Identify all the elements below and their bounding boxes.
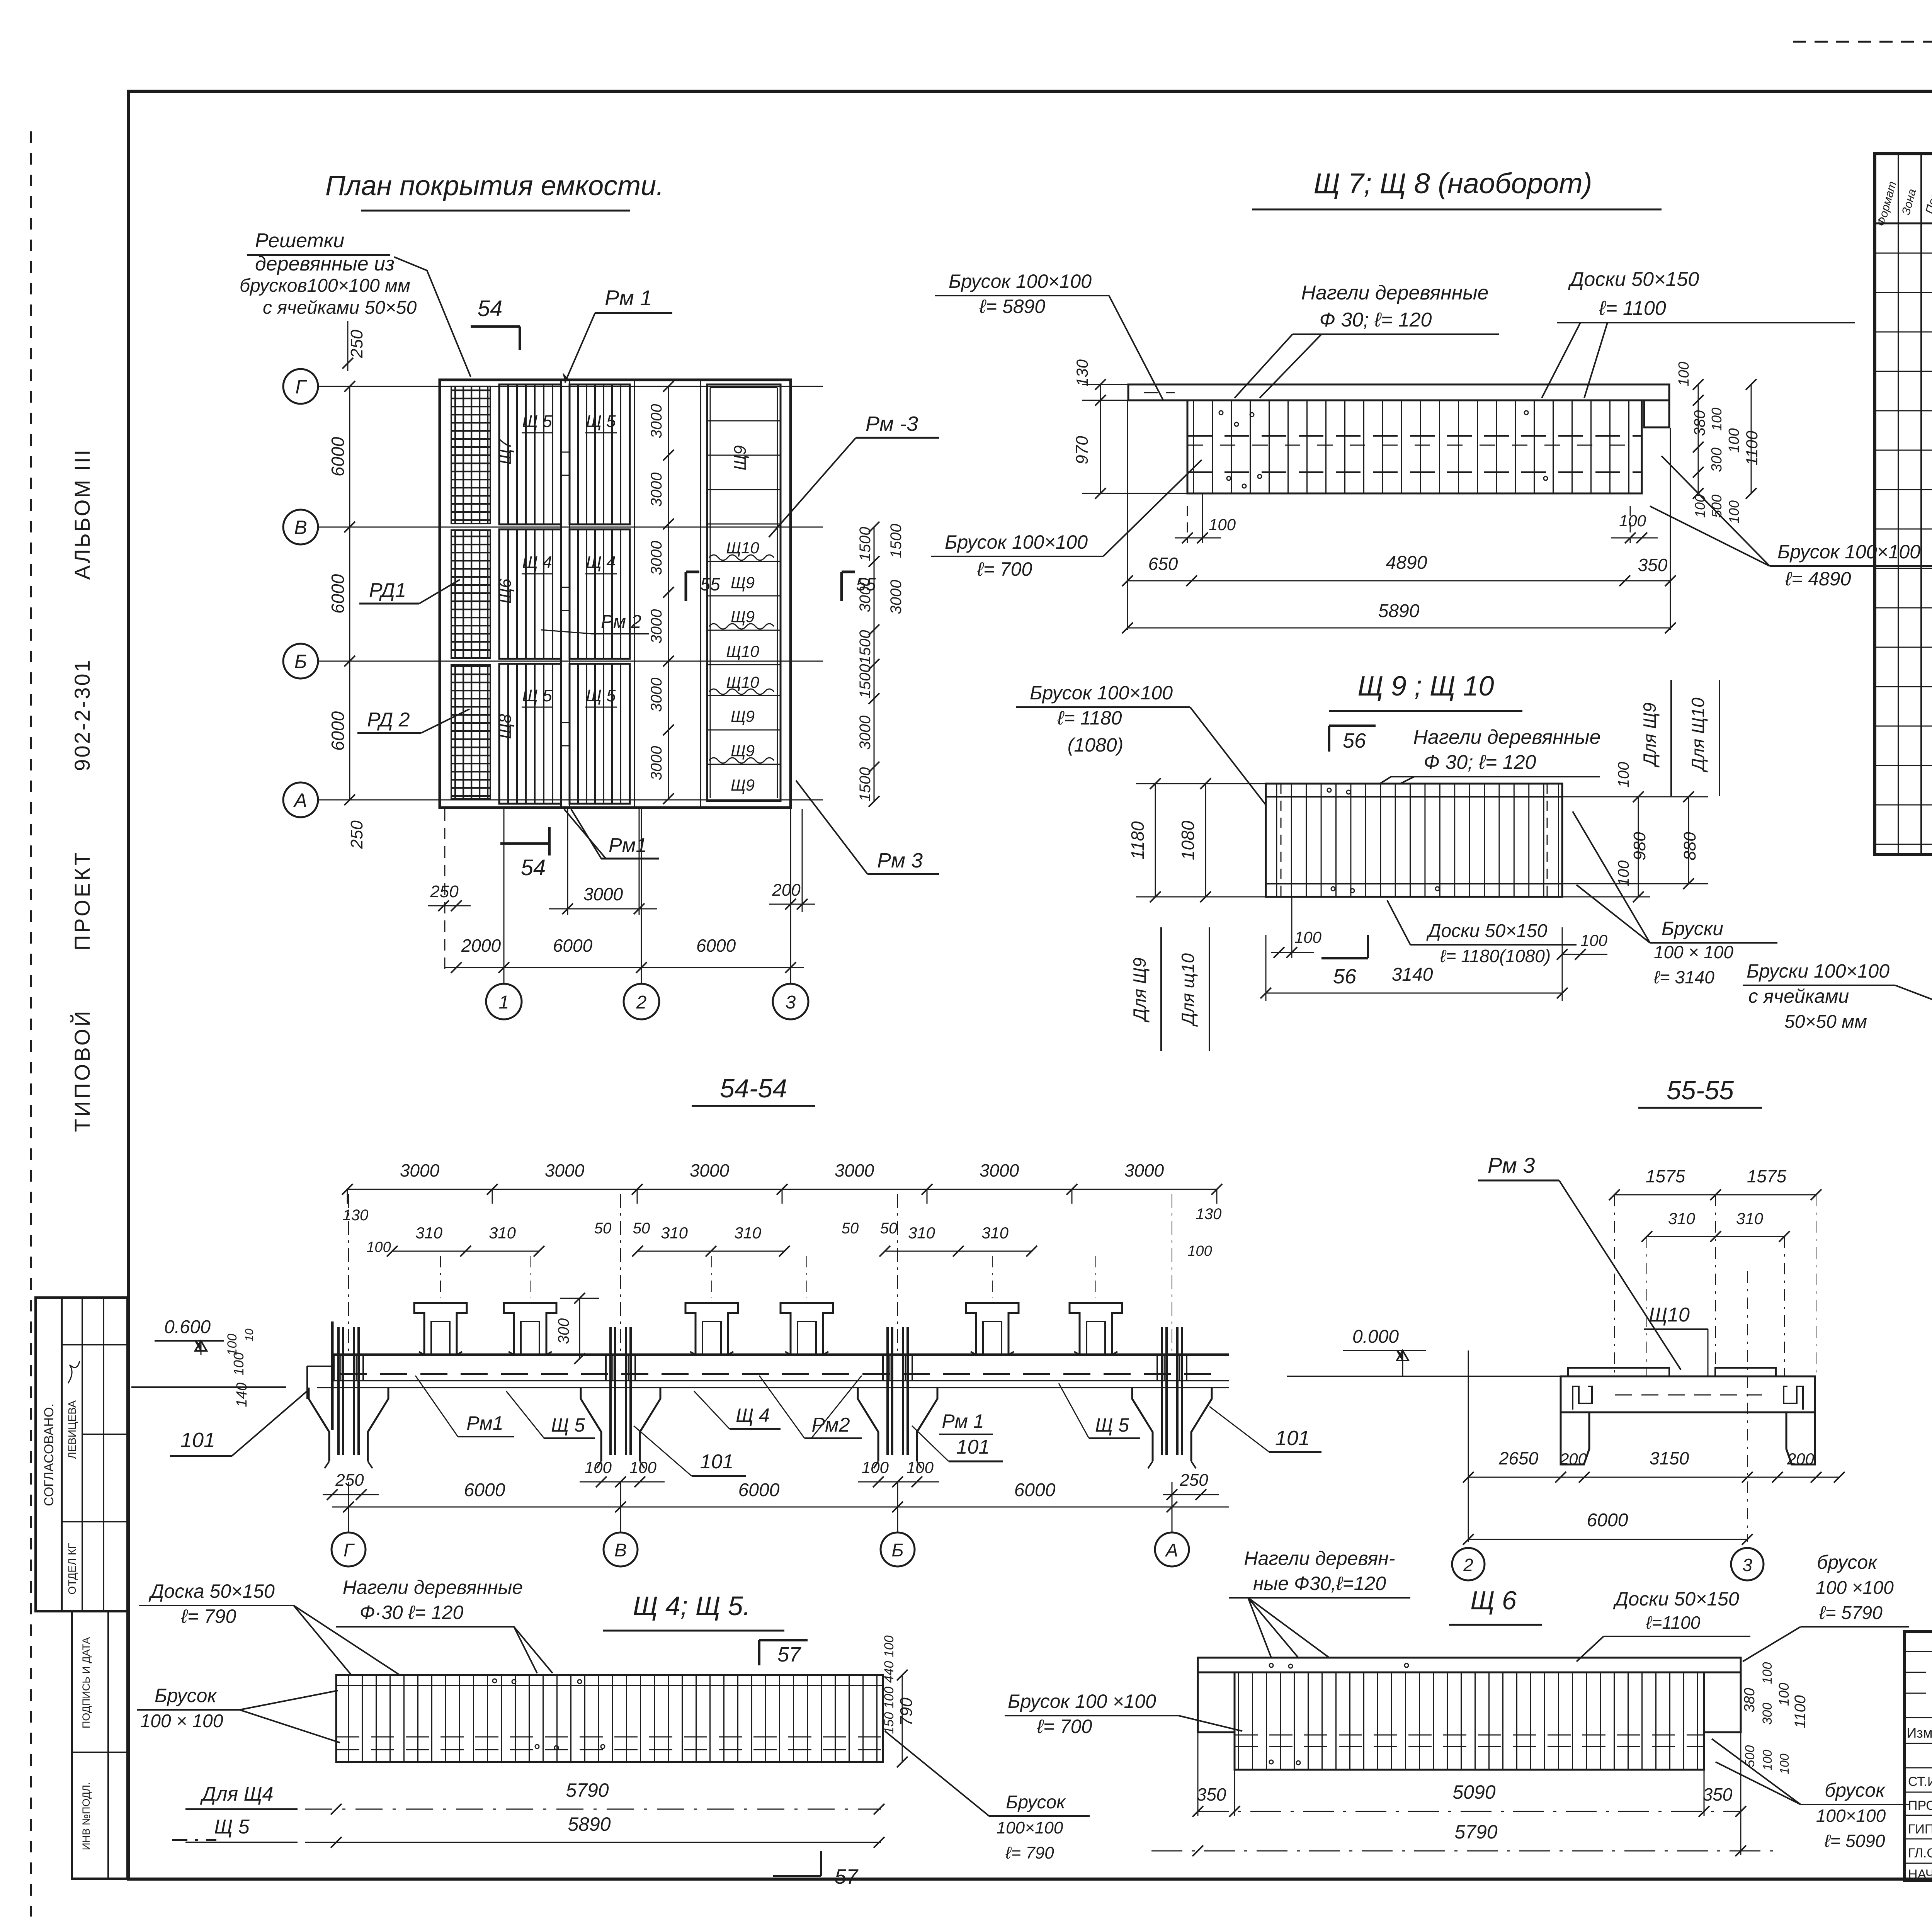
svg-text:55-55: 55-55 (1667, 1076, 1734, 1105)
svg-text:100: 100 (862, 1458, 889, 1476)
svg-text:Доски 50×150: Доски 50×150 (1613, 1588, 1739, 1610)
svg-text:200: 200 (772, 881, 801, 900)
svg-text:Щ10: Щ10 (726, 642, 759, 660)
svg-text:150 100 440 100: 150 100 440 100 (882, 1635, 896, 1734)
svg-text:100: 100 (1760, 1750, 1774, 1770)
axis line В (318, 527, 823, 528)
svg-text:100: 100 (1187, 1243, 1212, 1259)
svg-text:ℓ= 5890: ℓ= 5890 (979, 296, 1046, 317)
left end details 54-54 (331, 1321, 334, 1430)
svg-text:380: 380 (1742, 1688, 1758, 1712)
svg-text:250: 250 (347, 820, 366, 849)
svg-text:Щ 5: Щ 5 (214, 1816, 250, 1838)
axis lines 55-55 (1468, 1350, 1469, 1542)
svg-text:880: 880 (1680, 832, 1699, 861)
svg-text:Брусок 100 ×100: Брусок 100 ×100 (1008, 1690, 1156, 1712)
embedded vertical dowel bars at supports (337, 1327, 340, 1455)
svg-text:Щ 4; Щ 5.: Щ 4; Щ 5. (633, 1591, 750, 1621)
svg-text:СТ.ИНЖЕН: СТ.ИНЖЕН (1908, 1774, 1932, 1789)
svg-text:130: 130 (1073, 359, 1091, 386)
svg-text:Щ 5: Щ 5 (586, 412, 616, 431)
channel center dash verticals (440, 1256, 441, 1298)
plan right cell column Щ9/Щ10 (707, 384, 781, 801)
svg-text:РД1: РД1 (369, 579, 406, 602)
supports at axes 54-54 (309, 1388, 388, 1461)
svg-text:ЛЕВИЦЕВА: ЛЕВИЦЕВА (66, 1400, 78, 1459)
svg-text:Бруски: Бруски (1662, 918, 1723, 939)
svg-text:Рм2: Рм2 (811, 1414, 850, 1436)
svg-text:50: 50 (594, 1220, 612, 1237)
svg-text:Нагели деревянные: Нагели деревянные (1301, 282, 1488, 304)
svg-text:1: 1 (499, 992, 509, 1013)
svg-text:Ф·30 ℓ= 120: Ф·30 ℓ= 120 (360, 1602, 464, 1623)
bottom dim 650 4890 350 (1128, 580, 1670, 582)
svg-text:ТИПОВОЙ: ТИПОВОЙ (70, 1009, 94, 1132)
svg-text:310: 310 (1736, 1209, 1764, 1228)
svg-text:3150: 3150 (1650, 1448, 1689, 1468)
svg-text:с ячейками: с ячейками (1748, 985, 1849, 1007)
header row Изм Лист N докум Подпись Дата (1905, 1743, 1932, 1744)
svg-text:Щ9: Щ9 (731, 776, 755, 794)
svg-text:101: 101 (956, 1436, 990, 1458)
svg-text:Ф 30; ℓ= 120: Ф 30; ℓ= 120 (1424, 751, 1536, 774)
svg-text:брусков100×100 мм: брусков100×100 мм (240, 276, 410, 296)
svg-text:Щ7: Щ7 (496, 439, 515, 465)
svg-text:310: 310 (734, 1224, 762, 1242)
svg-text:54: 54 (478, 296, 503, 321)
svg-text:200: 200 (1560, 1450, 1587, 1468)
svg-text:ГЛ.СПЕЦ.: ГЛ.СПЕЦ. (1908, 1846, 1932, 1861)
svg-text:56: 56 (1343, 729, 1366, 752)
deck slab lines 54-54 (332, 1354, 1229, 1356)
svg-text:1080: 1080 (1178, 820, 1198, 860)
section marks 55 (685, 572, 687, 601)
svg-text:2: 2 (636, 992, 647, 1013)
deck 55-55 (1561, 1376, 1815, 1412)
left dim 130/970 (1100, 384, 1101, 493)
title block outer box (1905, 1632, 1932, 1880)
svg-text:3000: 3000 (1124, 1160, 1164, 1180)
dim 5890 (305, 1842, 881, 1843)
svg-text:300: 300 (555, 1318, 572, 1344)
svg-text:Щ6: Щ6 (496, 578, 515, 604)
svg-text:Доска 50×150: Доска 50×150 (148, 1580, 275, 1602)
svg-text:100: 100 (1777, 1753, 1791, 1774)
svg-text:Для Щ9: Для Щ9 (1129, 957, 1150, 1023)
plan embedded strip Рм1 (center) (561, 380, 570, 808)
panel Щ6 left upper block (1198, 1672, 1235, 1732)
svg-text:250: 250 (1179, 1471, 1208, 1490)
svg-text:Щ10: Щ10 (726, 539, 759, 557)
svg-text:АЛЬБОМ III: АЛЬБОМ III (70, 448, 94, 580)
svg-text:ГИП: ГИП (1908, 1822, 1932, 1837)
svg-text:Щ9: Щ9 (731, 607, 755, 626)
svg-text:54-54: 54-54 (720, 1074, 787, 1103)
svg-text:101: 101 (700, 1451, 734, 1473)
svg-text:2: 2 (1463, 1555, 1473, 1575)
axis line Г (318, 386, 823, 387)
svg-text:Щ8: Щ8 (496, 714, 515, 739)
svg-text:6000: 6000 (553, 935, 593, 956)
axis circles 54-54 (332, 1532, 366, 1566)
svg-text:3000: 3000 (648, 541, 665, 575)
sheet left crease dashed line (30, 131, 32, 1917)
svg-text:ℓ= 3140: ℓ= 3140 (1653, 967, 1714, 987)
left margin stamp box ПОДПИСЬ И ДАТА / ИНВ №ПОДЛ (72, 1611, 128, 1879)
svg-text:Щ10: Щ10 (726, 673, 759, 691)
svg-text:А: А (293, 789, 307, 811)
svg-text:Рм1: Рм1 (466, 1412, 503, 1434)
svg-text:Брусок: Брусок (1006, 1792, 1066, 1813)
panel Щ6 right end block (1704, 1672, 1741, 1732)
axis circle В (283, 510, 318, 544)
right dims 100 380 300 100 / 1100 (1698, 384, 1699, 493)
axis line Б (318, 661, 823, 662)
svg-text:6000: 6000 (1587, 1510, 1628, 1531)
svg-text:Щ 7; Щ 8 (наоборот): Щ 7; Щ 8 (наоборот) (1314, 167, 1592, 199)
svg-text:100: 100 (629, 1458, 657, 1476)
svg-text:ИНВ №ПОДЛ.: ИНВ №ПОДЛ. (80, 1782, 92, 1850)
svg-text:310: 310 (908, 1224, 935, 1242)
svg-text:500: 500 (1743, 1745, 1757, 1767)
svg-text:6000: 6000 (1014, 1480, 1056, 1500)
svg-text:В: В (614, 1540, 627, 1561)
left margin stamp box СОГЛАСОВАНО (36, 1298, 128, 1611)
dim 300 channel height (579, 1298, 580, 1359)
svg-text:101: 101 (1275, 1427, 1310, 1450)
dims 2650 200 3150 200 (1468, 1477, 1839, 1478)
svg-text:ℓ= 1100: ℓ= 1100 (1599, 297, 1666, 320)
channel profiles on deck (414, 1303, 467, 1355)
svg-text:ℓ= 700: ℓ= 700 (1037, 1716, 1092, 1737)
plan plank panel group Щ7/Щ6/Щ8 and Щ5/Щ4 (499, 384, 561, 524)
dim row 310/50 labels (392, 1251, 539, 1252)
svg-text:650: 650 (1148, 554, 1178, 574)
svg-text:Брусок: Брусок (155, 1685, 217, 1706)
svg-text:50: 50 (842, 1220, 859, 1237)
svg-text:ℓ= 4890: ℓ= 4890 (1785, 568, 1851, 590)
svg-text:310: 310 (981, 1224, 1009, 1242)
svg-text:6000: 6000 (328, 437, 348, 476)
svg-text:ПРОЕКТ: ПРОЕКТ (70, 850, 94, 951)
panel end battens dashed (1281, 784, 1282, 897)
svg-text:350: 350 (1197, 1784, 1226, 1804)
svg-text:100 × 100: 100 × 100 (1654, 942, 1733, 962)
left dims 1180 1080 (1155, 784, 1156, 897)
svg-text:100: 100 (1760, 1662, 1775, 1684)
wavy joint marks Рм3 in right column (709, 555, 774, 560)
svg-text:ℓ= 700: ℓ= 700 (977, 558, 1032, 580)
svg-text:100: 100 (1726, 428, 1742, 452)
svg-text:1500: 1500 (857, 527, 874, 561)
svg-text:1500: 1500 (857, 630, 874, 665)
dims 1575 1575 (1614, 1194, 1816, 1196)
svg-text:100: 100 (366, 1239, 391, 1255)
dim 6000 55-55 (1468, 1539, 1747, 1540)
svg-text:РД 2: РД 2 (367, 709, 410, 731)
nageli dots Щ6 (1269, 1663, 1273, 1667)
svg-text:ℓ= 5090: ℓ= 5090 (1824, 1831, 1885, 1851)
title block thin change rows (1905, 1651, 1932, 1652)
svg-text:3000: 3000 (648, 609, 665, 644)
svg-text:ℓ= 790: ℓ= 790 (1005, 1844, 1054, 1862)
svg-text:Щ 5: Щ 5 (551, 1414, 585, 1436)
svg-text:Рм 2: Рм 2 (601, 612, 641, 632)
svg-text:100×100: 100×100 (1816, 1806, 1886, 1826)
panel rails Щ6 (1235, 1735, 1704, 1736)
svg-text:310: 310 (661, 1224, 688, 1242)
svg-text:Г: Г (344, 1540, 355, 1561)
bottom dim 5890 (1128, 628, 1670, 629)
small dim 100 below left end (1187, 506, 1188, 543)
bottom small dims 100 (1291, 897, 1293, 958)
svg-text:Бруски 100×100: Бруски 100×100 (1747, 960, 1889, 982)
svg-text:310: 310 (1668, 1209, 1696, 1228)
svg-text:100: 100 (225, 1334, 240, 1356)
svg-text:Доски 50×150: Доски 50×150 (1568, 268, 1699, 291)
svg-text:350: 350 (1703, 1784, 1733, 1804)
top dim row 3000 x6 (347, 1189, 1217, 1190)
svg-text:Щ 5: Щ 5 (586, 686, 616, 705)
svg-text:350: 350 (1638, 555, 1668, 575)
nageli dots Щ9 (1327, 788, 1331, 792)
svg-text:100: 100 (1615, 861, 1632, 886)
svg-text:250: 250 (335, 1471, 364, 1490)
svg-text:Доски 50×150: Доски 50×150 (1426, 921, 1548, 941)
svg-text:План покрытия емкости.: План покрытия емкости. (325, 170, 664, 201)
svg-text:100: 100 (1580, 931, 1608, 949)
svg-text:Рм 3: Рм 3 (877, 849, 923, 872)
svg-text:3000: 3000 (857, 578, 874, 612)
svg-text:100 ×100: 100 ×100 (1816, 1578, 1894, 1598)
svg-text:Брусок 100×100: Брусок 100×100 (945, 531, 1088, 553)
svg-text:1100: 1100 (1792, 1695, 1809, 1728)
panel Щ6 body (1235, 1672, 1704, 1770)
svg-text:100×100: 100×100 (997, 1818, 1063, 1837)
svg-text:980: 980 (1630, 832, 1649, 861)
svg-text:ℓ=1100: ℓ=1100 (1646, 1612, 1701, 1633)
svg-text:54: 54 (521, 855, 546, 880)
svg-text:3: 3 (786, 992, 796, 1013)
panel Щ7/Щ8 horizontal batten dashes (1187, 435, 1642, 437)
plan right dim chain 1500/3000 (874, 527, 875, 801)
panel Щ6 top bar (1198, 1658, 1741, 1672)
svg-text:310: 310 (415, 1224, 443, 1242)
plan lattice strips РД (hatched) (451, 386, 490, 524)
svg-text:Щ 4: Щ 4 (586, 553, 616, 572)
svg-text:Щ 5: Щ 5 (1095, 1414, 1129, 1436)
svg-text:3140: 3140 (1392, 964, 1433, 985)
svg-text:100: 100 (585, 1458, 612, 1476)
panel Щ7/Щ8 right end block (1644, 400, 1669, 427)
svg-text:Рм 3: Рм 3 (1488, 1153, 1535, 1177)
axis circle А (283, 782, 318, 817)
svg-text:3000: 3000 (888, 580, 905, 614)
channel ends inside deck (1573, 1386, 1592, 1410)
svg-text:3000: 3000 (583, 884, 623, 904)
svg-text:Брусок 100×100: Брусок 100×100 (949, 270, 1092, 292)
svg-text:брусок: брусок (1817, 1551, 1878, 1573)
dims 310 310 (1647, 1236, 1784, 1237)
svg-text:3: 3 (1742, 1555, 1752, 1575)
svg-text:с ячейками 50×50: с ячейками 50×50 (263, 298, 417, 318)
svg-text:300: 300 (1760, 1703, 1775, 1725)
svg-text:50: 50 (633, 1220, 650, 1237)
svg-text:Нагели деревян-: Нагели деревян- (1244, 1548, 1395, 1569)
svg-text:2000: 2000 (461, 935, 501, 956)
svg-text:101: 101 (180, 1429, 215, 1452)
svg-text:ные Ф30,ℓ=120: ные Ф30,ℓ=120 (1253, 1573, 1386, 1594)
svg-text:100: 100 (1294, 928, 1322, 946)
svg-text:ПРОВЕР.: ПРОВЕР. (1908, 1798, 1932, 1813)
plan bottom axis circles 1 2 3 (486, 984, 522, 1019)
deck Рм strips at supports (334, 1355, 363, 1381)
svg-text:Щ 9 ; Щ 10: Щ 9 ; Щ 10 (1357, 671, 1494, 702)
svg-text:100: 100 (906, 1458, 934, 1476)
svg-text:А: А (1165, 1540, 1178, 1561)
svg-text:57: 57 (835, 1865, 859, 1888)
svg-text:Г: Г (295, 376, 307, 398)
svg-text:Изм.: Изм. (1906, 1725, 1932, 1741)
svg-text:57: 57 (777, 1643, 801, 1666)
svg-text:ℓ= 1180(1080): ℓ= 1180(1080) (1440, 946, 1551, 966)
svg-text:Рм 1: Рм 1 (605, 286, 652, 310)
svg-text:6000: 6000 (696, 935, 736, 956)
svg-text:790: 790 (897, 1697, 916, 1726)
right dims 100 980 880 (1638, 797, 1639, 897)
svg-text:НАЧ ОТД: НАЧ ОТД (1908, 1867, 1932, 1882)
svg-text:0.000: 0.000 (1352, 1327, 1399, 1347)
svg-text:5890: 5890 (1378, 601, 1420, 621)
svg-text:100 × 100: 100 × 100 (140, 1711, 223, 1731)
svg-text:6000: 6000 (328, 574, 348, 614)
svg-text:ПОДПИСЬ И ДАТА: ПОДПИСЬ И ДАТА (80, 1637, 92, 1728)
svg-text:3000: 3000 (648, 678, 665, 712)
svg-text:ℓ= 790: ℓ= 790 (181, 1605, 236, 1627)
svg-text:Щ9: Щ9 (731, 573, 755, 592)
svg-text:380: 380 (1691, 410, 1708, 436)
svg-text:140: 140 (234, 1383, 250, 1407)
axis dash-dot verticals 54-54 (348, 1194, 349, 1352)
svg-text:3000: 3000 (835, 1160, 874, 1180)
panel Щ7/Щ8 body with planks (1187, 400, 1642, 493)
svg-text:4890: 4890 (1386, 553, 1427, 573)
svg-text:100: 100 (1209, 515, 1236, 534)
svg-text:310: 310 (489, 1224, 516, 1242)
svg-text:Решетки: Решетки (255, 230, 344, 252)
svg-text:50×50 мм: 50×50 мм (1784, 1012, 1867, 1032)
top slabs Щ10 on deck (1568, 1368, 1669, 1376)
svg-text:Щ 5: Щ 5 (522, 412, 552, 431)
svg-text:970: 970 (1073, 436, 1092, 464)
small dim 100 below right end (1630, 506, 1631, 543)
svg-text:Б: Б (891, 1540, 903, 1561)
svg-text:1575: 1575 (1646, 1166, 1685, 1186)
svg-text:Для Щ9: Для Щ9 (1639, 702, 1660, 768)
svg-text:1575: 1575 (1747, 1166, 1787, 1186)
svg-text:2650: 2650 (1498, 1448, 1539, 1468)
svg-text:300: 300 (1709, 447, 1725, 472)
svg-text:3000: 3000 (857, 716, 874, 750)
svg-text:Брусок 100×100: Брусок 100×100 (1030, 682, 1173, 704)
svg-text:3000: 3000 (648, 473, 665, 507)
svg-text:Щ 4: Щ 4 (522, 553, 552, 572)
svg-text:Щ9: Щ9 (731, 445, 750, 470)
svg-text:Для щ10: Для щ10 (1178, 953, 1198, 1027)
axis line А (318, 799, 823, 801)
svg-text:1500: 1500 (857, 767, 874, 802)
svg-text:200: 200 (1787, 1450, 1815, 1468)
svg-text:3000: 3000 (980, 1160, 1019, 1180)
svg-text:100: 100 (1709, 408, 1725, 431)
plan outer rectangle (440, 380, 791, 808)
svg-text:6000: 6000 (464, 1480, 505, 1500)
svg-text:100: 100 (1776, 1683, 1792, 1706)
svg-text:50: 50 (880, 1220, 898, 1237)
svg-text:ℓ= 1180: ℓ= 1180 (1057, 707, 1122, 729)
axis circle Б (283, 644, 318, 679)
svg-text:ℓ= 5790: ℓ= 5790 (1819, 1603, 1883, 1623)
svg-text:Ф 30; ℓ= 120: Ф 30; ℓ= 120 (1320, 309, 1432, 331)
panel Щ7/Щ8 top bar (1128, 384, 1669, 400)
leader from note to lattice (394, 257, 471, 377)
signature scribble in stamp (68, 1361, 80, 1383)
svg-text:3000: 3000 (648, 746, 665, 781)
svg-text:ОТДЕЛ КГ: ОТДЕЛ КГ (66, 1543, 78, 1594)
57 section marks (759, 1639, 808, 1641)
svg-text:деревянные из: деревянные из (255, 253, 395, 275)
supports 55-55 (1561, 1412, 1589, 1464)
svg-text:130: 130 (1196, 1206, 1222, 1223)
svg-text:3000: 3000 (400, 1160, 440, 1180)
svg-text:Для Щ10: Для Щ10 (1688, 697, 1708, 773)
svg-text:Нагели деревянные: Нагели деревянные (1413, 726, 1600, 748)
panel Щ9/Щ10 body (1266, 784, 1562, 897)
plan inner vertical dims 3000 rotated (668, 386, 669, 799)
panel rails (1266, 796, 1562, 798)
section mark 56 top (1329, 724, 1376, 727)
svg-text:100: 100 (1676, 362, 1692, 386)
svg-text:Щ 6: Щ 6 (1470, 1586, 1517, 1615)
svg-text:1180: 1180 (1128, 821, 1148, 859)
svg-text:250: 250 (347, 330, 366, 359)
svg-text:3000: 3000 (690, 1160, 730, 1180)
panel Щ4/Щ5 body (336, 1675, 883, 1762)
svg-text:Щ9: Щ9 (731, 742, 755, 760)
svg-text:130: 130 (343, 1207, 369, 1224)
svg-text:Щ9: Щ9 (731, 707, 755, 725)
svg-text:СОГЛАСОВАНО.: СОГЛАСОВАНО. (42, 1403, 56, 1506)
svg-text:1500: 1500 (888, 524, 905, 558)
svg-text:6000: 6000 (738, 1480, 780, 1500)
svg-text:10: 10 (243, 1328, 256, 1342)
spec table grid (1875, 154, 1932, 855)
svg-text:100: 100 (1692, 495, 1708, 518)
svg-text:В: В (294, 517, 307, 538)
svg-text:Щ10: Щ10 (1649, 1304, 1690, 1326)
svg-text:100: 100 (1726, 500, 1742, 524)
nageli dots (1219, 411, 1223, 415)
svg-text:Б: Б (294, 651, 307, 672)
svg-text:Нагели деревянные: Нагели деревянные (343, 1577, 523, 1598)
svg-text:5890: 5890 (568, 1813, 611, 1835)
svg-text:брусок: брусок (1825, 1779, 1886, 1801)
svg-text:6000: 6000 (328, 711, 348, 751)
panel rails (336, 1685, 883, 1686)
svg-text:56: 56 (1333, 965, 1357, 988)
svg-text:(1080): (1080) (1068, 734, 1124, 756)
bottom dim 6000 x3 (332, 1507, 1229, 1508)
